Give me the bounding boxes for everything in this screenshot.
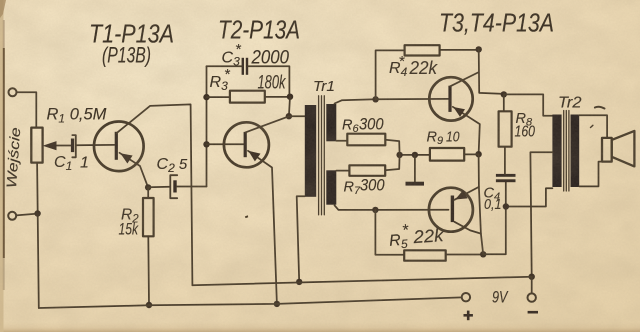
ink speck 2 bbox=[591, 125, 593, 127]
node T1 emitter bbox=[145, 184, 151, 190]
C4 wiring bbox=[483, 182, 506, 254]
svg-text:9V: 9V bbox=[492, 289, 509, 307]
resistor R2 bbox=[147, 187, 149, 198]
input terminal top bbox=[9, 88, 17, 96]
T4 emitter bbox=[454, 187, 479, 200]
Tr1 primary bottom lead bbox=[297, 196, 305, 282]
capacitor C2 bbox=[148, 186, 170, 189]
svg-text:2000: 2000 bbox=[251, 47, 289, 69]
svg-text:R1 0,5M: R1 0,5M bbox=[47, 106, 107, 126]
svg-text:15k: 15k bbox=[119, 221, 139, 239]
page corner smudge bbox=[0, 0, 6, 18]
Tr1 secondary top lead bbox=[335, 99, 376, 103]
emitter/collector rail vertical bbox=[479, 154, 484, 254]
wire C1 to T1 base bbox=[76, 144, 114, 146]
svg-text:(P13B): (P13B) bbox=[102, 43, 151, 68]
resistor R5 wiring bbox=[375, 210, 404, 255]
minus terminal bbox=[531, 277, 533, 294]
minus sign bbox=[528, 311, 538, 314]
resistor R3 bbox=[207, 96, 230, 98]
Tr1 core bbox=[319, 96, 325, 215]
Tr1 secondary top winding bbox=[326, 104, 336, 141]
transistor T3 bbox=[429, 77, 472, 120]
T3 base wire bbox=[376, 98, 449, 100]
transistor T4 bbox=[429, 188, 473, 232]
Tr2 core bbox=[564, 111, 569, 192]
svg-text:22k: 22k bbox=[412, 225, 445, 247]
capacitor C1 bbox=[71, 139, 74, 153]
stray mark near Tr2 bbox=[595, 107, 605, 109]
wire to Tr2 primary top bbox=[504, 94, 553, 115]
junction dot bbox=[34, 210, 40, 216]
Tr2 primary center tap to minus rail bbox=[530, 152, 552, 277]
plus terminal bbox=[462, 293, 470, 301]
resistor R4 wiring bbox=[376, 50, 405, 99]
T4 base wire from Tr1 secondary bottom bbox=[335, 205, 449, 210]
T2 emitter bbox=[248, 151, 277, 304]
svg-text:300: 300 bbox=[359, 116, 384, 134]
transformer Tr2 primary winding bbox=[552, 115, 561, 188]
svg-text:1: 1 bbox=[80, 155, 89, 172]
speaker bbox=[602, 138, 612, 162]
transformer Tr1 primary lead bbox=[289, 115, 305, 117]
svg-text:180k: 180k bbox=[258, 73, 287, 94]
page edge line left bbox=[3, 48, 5, 258]
T3 collector bbox=[450, 49, 504, 94]
resistor R8 bbox=[499, 111, 512, 146]
Tr1 secondary bottom winding bbox=[326, 170, 336, 204]
svg-text:300: 300 bbox=[360, 177, 385, 195]
label R5* 22k bbox=[388, 220, 445, 252]
svg-text:T2-P13A: T2-P13A bbox=[218, 15, 300, 45]
plus sign bbox=[464, 314, 473, 317]
svg-text:T3,T4-P13A: T3,T4-P13A bbox=[439, 8, 554, 38]
transistor T2 bbox=[207, 143, 244, 145]
svg-text:Tr1: Tr1 bbox=[313, 79, 335, 95]
svg-text:22k: 22k bbox=[409, 57, 439, 78]
wire input top to R1 top bbox=[17, 92, 37, 127]
resistor R6 bbox=[336, 140, 347, 142]
resistor R9 bbox=[400, 154, 430, 156]
capacitor C4 bbox=[496, 174, 516, 177]
T3 emitter bbox=[453, 107, 480, 154]
negative supply rail bbox=[192, 277, 531, 286]
node line T2 base / R3 / C3 bbox=[206, 66, 208, 186]
T1 emitter wire bbox=[120, 153, 149, 188]
common bar symbol bbox=[414, 155, 416, 182]
positive supply rail bbox=[39, 297, 462, 308]
svg-text:10: 10 bbox=[446, 130, 460, 146]
potentiometer R1 bbox=[31, 128, 42, 163]
R1 wiper arrow bbox=[56, 145, 71, 147]
svg-text:160: 160 bbox=[515, 124, 536, 141]
Tr2 secondary to speaker bottom bbox=[579, 162, 602, 187]
Tr2 secondary to speaker top bbox=[579, 115, 607, 138]
input terminal bottom bbox=[8, 212, 16, 220]
transformer Tr1 primary winding bbox=[305, 105, 316, 197]
wire input bottom to rail bbox=[16, 214, 37, 216]
Tr2 secondary winding bbox=[571, 115, 580, 188]
capacitor C3 bbox=[207, 65, 242, 67]
transistor T1 bbox=[94, 122, 144, 172]
T4 collector bbox=[454, 222, 481, 234]
resistor R7 bbox=[336, 170, 349, 172]
T1 collector wire bbox=[117, 104, 193, 285]
wire R1 bottom down left rail bbox=[37, 163, 39, 308]
Tr2 primary bottom lead to C4 node bbox=[506, 188, 553, 206]
svg-text:Tr2: Tr2 bbox=[558, 95, 582, 112]
ink speck bbox=[245, 215, 248, 218]
svg-text:0,1: 0,1 bbox=[484, 197, 502, 213]
T2 collector bbox=[245, 116, 289, 132]
